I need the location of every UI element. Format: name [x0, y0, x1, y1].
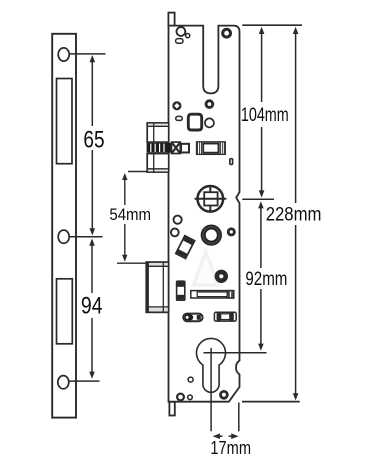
small circle beside ring — [186, 34, 190, 38]
ring pair left — [174, 216, 182, 224]
dim 104 arrow line — [261, 31, 263, 194]
knurled nut right — [205, 99, 215, 109]
dim 54mm arrow line — [124, 177, 126, 258]
dim 94 bottom tick — [70, 380, 100, 382]
faceplate screw hole middle — [58, 230, 69, 243]
latch stop rect — [181, 144, 189, 153]
faceplate screw hole top — [58, 48, 69, 61]
right pill — [214, 312, 236, 321]
screw head top-right — [221, 28, 232, 39]
cylinder crosshair horizontal / dim 92 bottom tick — [204, 352, 267, 354]
long bar — [191, 291, 234, 298]
dim 17 right line — [238, 403, 240, 432]
tilted lever — [176, 236, 195, 259]
spring box — [197, 142, 226, 154]
latch bolt — [147, 143, 172, 153]
dim 54mm ticks — [128, 171, 147, 173]
pill vertical — [177, 281, 185, 300]
svg-text:65: 65 — [83, 128, 104, 154]
deadbolt — [146, 262, 168, 312]
gear wheel — [215, 270, 228, 283]
lock case top tab — [168, 13, 174, 26]
watermark triangle — [194, 252, 218, 286]
ring top-left — [177, 27, 186, 36]
svg-text:92mm: 92mm — [245, 269, 287, 290]
oval slot 2 — [176, 116, 183, 120]
cylinder crosshair vertical / dim 17 left line — [210, 348, 212, 431]
latch upper guide block — [147, 123, 169, 142]
thin ring right of cam — [205, 118, 214, 127]
small gear right — [227, 227, 236, 236]
dim bottom tick — [242, 401, 300, 403]
latch follower square — [172, 142, 181, 153]
svg-text:54mm: 54mm — [109, 205, 151, 224]
bottom small circle — [188, 395, 193, 400]
faceplate latch cutout — [57, 79, 73, 164]
knurled nut left — [172, 101, 181, 110]
faceplate screw hole bottom — [58, 376, 69, 389]
left pill — [183, 314, 202, 322]
dim 65 arrow line — [91, 59, 93, 232]
svg-text:228mm: 228mm — [266, 204, 322, 226]
lock case bottom tab — [169, 402, 174, 416]
euro cylinder cutout — [197, 338, 226, 392]
dim mid tick — [242, 198, 274, 200]
cam aperture bold octagon — [188, 114, 201, 130]
dim 65 mid tick — [70, 236, 103, 238]
faceplate (keep strike plate) — [52, 34, 76, 418]
latch lower guide block — [147, 154, 169, 173]
dim 17 left arrow — [218, 435, 223, 437]
small circle above bottom — [188, 377, 193, 382]
svg-text:104mm: 104mm — [241, 105, 289, 126]
lock case outline — [169, 26, 240, 402]
bottom bolt ring — [219, 390, 229, 400]
svg-text:94: 94 — [81, 294, 103, 320]
spindle follower — [198, 186, 224, 212]
dim 65 top tick — [70, 53, 106, 55]
dim 228 arrow line — [295, 31, 297, 397]
stop pin — [229, 158, 233, 165]
oval slot top — [176, 39, 183, 44]
cylinder boss — [201, 225, 221, 245]
dim 94 arrow line — [91, 242, 93, 375]
bottom ring — [177, 394, 184, 401]
dim top tick — [242, 24, 302, 26]
faceplate deadbolt cutout — [57, 279, 73, 344]
dim 92 arrow line — [260, 205, 262, 347]
dim 17 right arrow — [229, 435, 234, 437]
svg-text:17mm: 17mm — [210, 438, 251, 458]
